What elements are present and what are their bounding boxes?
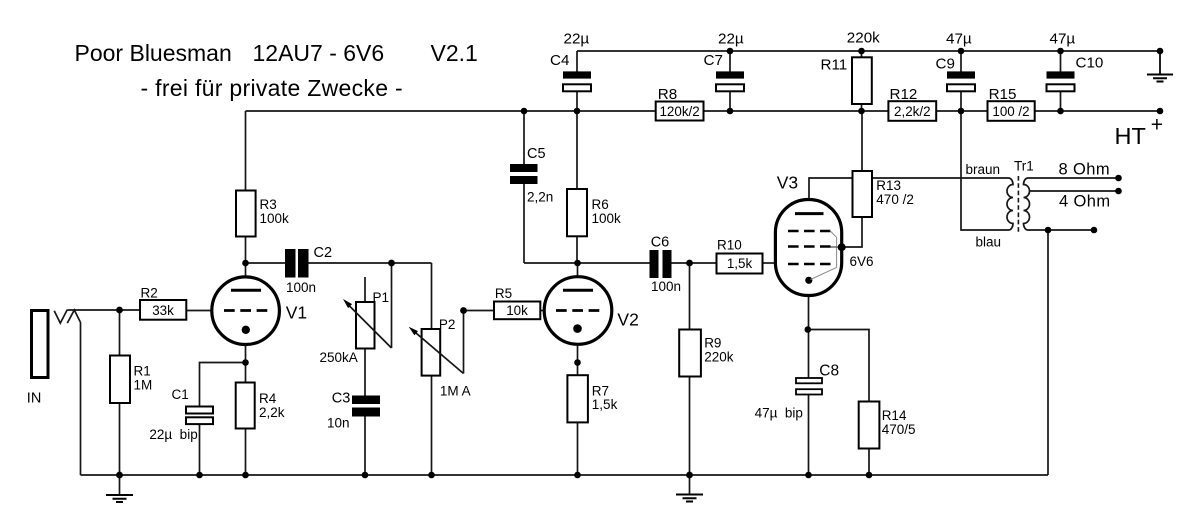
node dots anode bus bbox=[242, 260, 693, 267]
connector jack IN bbox=[27, 310, 81, 407]
svg-text:C3: C3 bbox=[332, 391, 351, 407]
svg-text:100n: 100n bbox=[651, 279, 681, 294]
svg-text:V1: V1 bbox=[286, 303, 307, 323]
wire anode bus V1-C2 bbox=[246, 262, 286, 264]
svg-text:22µ bip: 22µ bip bbox=[149, 427, 197, 442]
label HT+ bbox=[1115, 114, 1164, 150]
svg-text:R11: R11 bbox=[821, 57, 848, 74]
svg-text:2,2k/2: 2,2k/2 bbox=[894, 104, 930, 119]
potentiometer P1 bbox=[320, 290, 392, 365]
wire R14 branch bbox=[809, 330, 870, 476]
svg-text:33k: 33k bbox=[152, 303, 174, 318]
resistor R14 bbox=[859, 402, 916, 449]
svg-text:10n: 10n bbox=[327, 416, 350, 431]
wire R13 column bbox=[842, 111, 862, 247]
resistor R9 bbox=[679, 330, 734, 377]
wire input to R2 bbox=[68, 309, 141, 311]
node dots top rail bbox=[727, 48, 1164, 55]
wire V3 cathode bbox=[808, 281, 810, 475]
wire R6 column bbox=[576, 111, 578, 263]
wire V2 cathode bbox=[577, 329, 579, 375]
tube V1 bbox=[212, 277, 307, 345]
resistor R13 bbox=[853, 171, 914, 217]
capacitor C2 bbox=[285, 245, 332, 295]
capacitor C5 bbox=[510, 146, 553, 205]
svg-text:6V6: 6V6 bbox=[850, 254, 874, 269]
resistor R11 bbox=[821, 30, 881, 105]
svg-text:22µ: 22µ bbox=[718, 30, 744, 47]
svg-text:C7: C7 bbox=[704, 52, 723, 69]
svg-text:47µ bip: 47µ bip bbox=[755, 405, 803, 420]
wire C7 column bbox=[729, 51, 731, 111]
svg-text:2,2n: 2,2n bbox=[527, 190, 553, 205]
wire R4 column bbox=[245, 363, 247, 476]
svg-text:100k: 100k bbox=[592, 211, 622, 226]
wire top-right ground stub bbox=[1159, 51, 1161, 75]
svg-text:C1: C1 bbox=[172, 387, 189, 402]
wire P1 wiper column bbox=[391, 263, 393, 348]
ground middle bbox=[676, 475, 703, 502]
svg-text:12AU7 - 6V6: 12AU7 - 6V6 bbox=[253, 40, 385, 66]
ground bottom-left bbox=[106, 475, 133, 502]
capacitor C10 bbox=[1047, 30, 1104, 91]
node dots bottom rail bbox=[116, 472, 872, 479]
svg-text:IN: IN bbox=[27, 391, 42, 407]
svg-text:10k: 10k bbox=[506, 303, 528, 318]
wire C1 branch bbox=[200, 363, 246, 476]
svg-text:R4: R4 bbox=[259, 391, 277, 406]
svg-text:P2: P2 bbox=[439, 317, 456, 332]
tube V3 bbox=[775, 172, 873, 295]
resistor R1 bbox=[110, 356, 152, 404]
wire bottom ground rail bbox=[81, 474, 1049, 476]
svg-text:V2: V2 bbox=[617, 309, 638, 329]
svg-text:- frei für private Zwecke -: - frei für private Zwecke - bbox=[141, 75, 403, 101]
capacitor C1 bbox=[149, 387, 213, 442]
resistor R3 bbox=[236, 191, 289, 237]
wire R1 column bbox=[119, 310, 121, 475]
wire R5 to V2 bbox=[541, 310, 545, 312]
wire secondary 4 Ohm tap bbox=[1030, 190, 1119, 192]
wire R3 column bbox=[245, 111, 247, 263]
svg-text:1M A: 1M A bbox=[440, 384, 471, 399]
resistor R15 bbox=[988, 86, 1035, 121]
svg-text:C2: C2 bbox=[314, 245, 333, 261]
wire P2 bottom bbox=[431, 376, 433, 476]
svg-text:470/5: 470/5 bbox=[882, 422, 916, 437]
svg-text:R3: R3 bbox=[260, 197, 277, 212]
wire C5 column bbox=[523, 111, 525, 263]
svg-text:R15: R15 bbox=[989, 86, 1017, 103]
svg-text:C4: C4 bbox=[550, 52, 569, 69]
svg-text:47µ: 47µ bbox=[946, 30, 972, 47]
wire secondary bottom tap bbox=[1028, 229, 1094, 231]
svg-text:+: + bbox=[1151, 114, 1163, 137]
wire blau bbox=[961, 111, 1009, 230]
svg-text:R5: R5 bbox=[495, 286, 512, 301]
svg-text:blau: blau bbox=[976, 235, 1002, 250]
wire V2 anode bbox=[577, 263, 579, 289]
svg-text:4 Ohm: 4 Ohm bbox=[1059, 193, 1111, 211]
wire R7 bottom bbox=[577, 423, 579, 476]
resistor R7 bbox=[567, 375, 617, 422]
ground top-right bbox=[1147, 51, 1173, 82]
node dots middle bbox=[116, 307, 811, 366]
svg-text:1,5k: 1,5k bbox=[592, 397, 618, 412]
wire P2 wiper column bbox=[463, 311, 465, 374]
svg-text:1M: 1M bbox=[134, 378, 153, 393]
resistor R12 bbox=[888, 86, 936, 121]
svg-text:braun: braun bbox=[966, 162, 1001, 177]
wire C4 column bbox=[576, 51, 578, 111]
resistor R5 bbox=[494, 286, 540, 319]
svg-text:R9: R9 bbox=[704, 336, 721, 351]
svg-text:R14: R14 bbox=[882, 408, 907, 423]
wire C2 to P2 corner bbox=[309, 262, 432, 264]
svg-text:22µ: 22µ bbox=[564, 30, 590, 47]
wire jack sleeve down bbox=[80, 322, 82, 475]
wire P1 top stub bbox=[364, 277, 366, 302]
wire V3 anode braun bbox=[809, 178, 1009, 213]
svg-text:2,2k: 2,2k bbox=[259, 405, 285, 420]
wire C9 column bbox=[960, 51, 962, 111]
svg-text:100 /2: 100 /2 bbox=[992, 104, 1029, 119]
potentiometer P2 bbox=[409, 317, 471, 399]
svg-text:R10: R10 bbox=[717, 238, 742, 253]
svg-text:100n: 100n bbox=[286, 280, 316, 295]
svg-text:P1: P1 bbox=[373, 290, 390, 305]
svg-text:V3: V3 bbox=[777, 172, 798, 192]
svg-text:Poor Bluesman: Poor Bluesman bbox=[75, 40, 232, 66]
wire V1 anode bbox=[245, 263, 247, 289]
capacitor C3 bbox=[327, 391, 380, 431]
capacitor C9 bbox=[936, 30, 976, 91]
resistor R2 bbox=[140, 286, 186, 320]
svg-text:HT: HT bbox=[1115, 123, 1146, 149]
capacitor C8 bbox=[755, 362, 840, 420]
wire secondary 8 Ohm tap bbox=[1028, 177, 1119, 179]
wire V1 grid bbox=[187, 310, 213, 312]
svg-text:C8: C8 bbox=[819, 362, 839, 379]
resistor R6 bbox=[567, 189, 621, 236]
svg-text:1,5k: 1,5k bbox=[727, 256, 753, 271]
svg-text:R6: R6 bbox=[592, 197, 609, 212]
svg-text:C5: C5 bbox=[527, 146, 546, 162]
wire R9 column bbox=[689, 263, 691, 475]
transformer Tr1 bbox=[966, 159, 1034, 250]
svg-text:R8: R8 bbox=[658, 86, 677, 103]
wire P2 to R5 bbox=[464, 310, 495, 312]
wire R10 to V3 bbox=[763, 262, 776, 264]
wire C10 column bbox=[1060, 51, 1062, 111]
svg-text:120k/2: 120k/2 bbox=[659, 104, 699, 119]
node dots B+ rail bbox=[521, 108, 1164, 115]
svg-text:8 Ohm: 8 Ohm bbox=[1059, 161, 1111, 179]
resistor R10 bbox=[717, 238, 763, 274]
wire P2 top column bbox=[431, 263, 433, 329]
svg-text:R12: R12 bbox=[890, 86, 918, 103]
tube V2 bbox=[544, 277, 639, 345]
node dots transformer bbox=[1045, 175, 1122, 234]
svg-text:47µ: 47µ bbox=[1050, 30, 1076, 47]
wire top ground rail bbox=[577, 50, 1160, 52]
svg-text:220k: 220k bbox=[847, 30, 880, 47]
svg-text:100k: 100k bbox=[260, 211, 290, 226]
wire P1 to C3 bbox=[364, 349, 366, 476]
svg-text:Tr1: Tr1 bbox=[1014, 159, 1034, 174]
svg-text:C6: C6 bbox=[651, 235, 670, 251]
svg-text:V2.1: V2.1 bbox=[431, 40, 478, 66]
svg-text:R1: R1 bbox=[134, 364, 151, 379]
capacitor C7 bbox=[704, 30, 745, 91]
wire B+ rail bbox=[246, 110, 1161, 112]
resistor R4 bbox=[236, 383, 285, 429]
svg-text:C9: C9 bbox=[936, 55, 955, 72]
wire C5 to C6 bbox=[524, 262, 650, 264]
capacitor C4 bbox=[550, 30, 591, 91]
wire R11 column bbox=[861, 51, 863, 111]
svg-text:C10: C10 bbox=[1076, 55, 1104, 72]
svg-text:220k: 220k bbox=[704, 350, 734, 365]
resistor R8 bbox=[656, 86, 704, 121]
wire V1 cathode bbox=[245, 330, 247, 363]
svg-text:470 /2: 470 /2 bbox=[876, 192, 914, 207]
svg-text:R13: R13 bbox=[876, 178, 901, 193]
capacitor C6 bbox=[650, 235, 682, 295]
svg-text:R2: R2 bbox=[141, 286, 158, 301]
svg-text:250kA: 250kA bbox=[320, 350, 358, 365]
wire secondary to ground rail bbox=[1047, 230, 1049, 475]
wire C6 to R10 bbox=[671, 262, 717, 264]
